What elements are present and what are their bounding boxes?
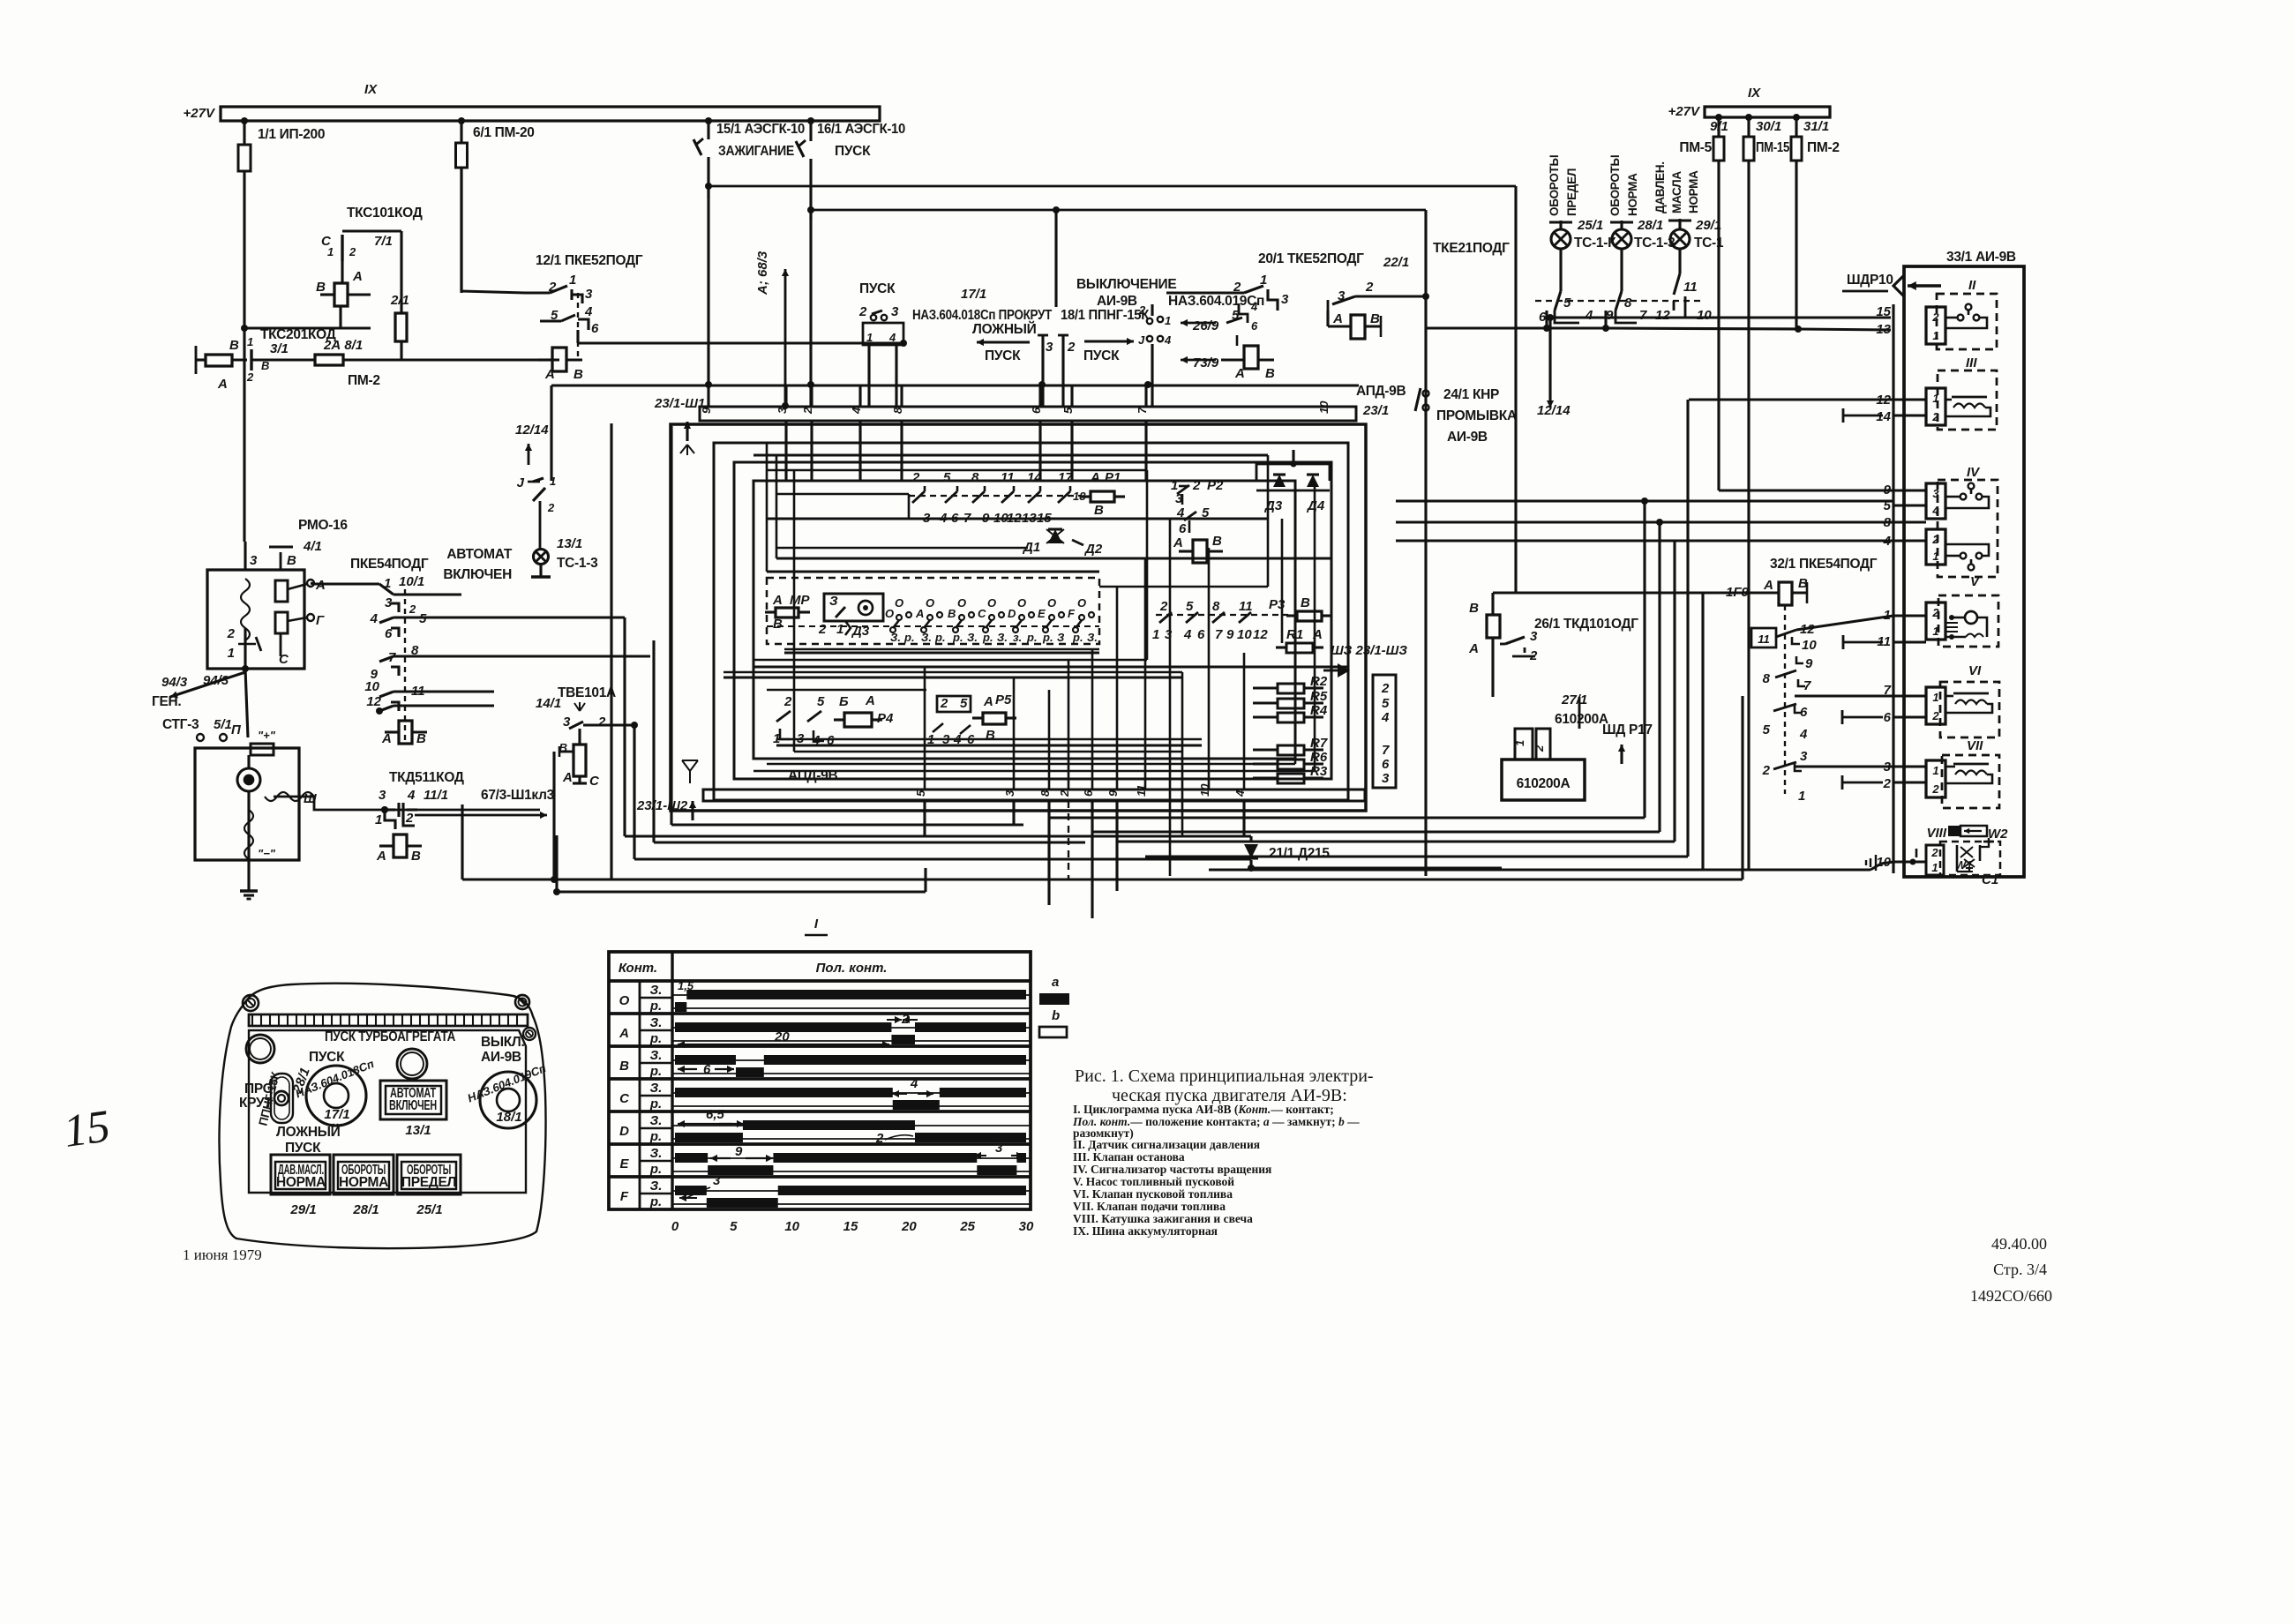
svg-text:R4: R4 [1310, 703, 1328, 718]
svg-text:IX: IX [364, 82, 378, 97]
svg-text:10: 10 [1237, 627, 1252, 642]
svg-text:2: 2 [409, 602, 416, 616]
svg-text:R7: R7 [1310, 736, 1328, 751]
svg-text:С: С [978, 607, 986, 620]
svg-text:А: А [983, 694, 993, 709]
svg-text:А: А [865, 693, 875, 708]
svg-text:R5: R5 [1310, 689, 1328, 704]
wire right verticals to connector [2187, 891, 2189, 938]
svg-text:р.: р. [649, 1031, 662, 1046]
svg-text:27/1: 27/1 [1561, 692, 1587, 707]
svg-text:F: F [1068, 607, 1076, 620]
svg-text:з.: з. [1013, 631, 1022, 644]
svg-text:4/1: 4/1 [303, 539, 322, 554]
svg-text:А: А [562, 770, 573, 785]
cyclogram table frame [609, 952, 1031, 1209]
wire pins 5 8 4 long [1396, 499, 1893, 502]
wire bundle vertical right mid [1718, 490, 1720, 491]
svg-text:Р3: Р3 [1269, 597, 1286, 612]
svg-text:R1: R1 [1286, 627, 1303, 642]
svg-text:23/1: 23/1 [1362, 403, 1389, 418]
svg-text:7: 7 [1215, 627, 1223, 642]
svg-text:АИ-9В: АИ-9В [1447, 430, 1488, 445]
svg-text:Г: Г [316, 613, 325, 628]
svg-text:Конт.: Конт. [618, 961, 657, 976]
svg-text:5: 5 [817, 694, 825, 709]
svg-text:23/1-Ш1: 23/1-Ш1 [654, 396, 705, 411]
svg-text:18: 18 [1073, 490, 1086, 503]
wire diode Д215 horizontal [1251, 866, 1502, 869]
svg-text:11: 11 [1683, 280, 1698, 295]
svg-text:НОРМА: НОРМА [339, 1175, 388, 1190]
svg-text:З.: З. [921, 631, 932, 644]
switch 15/1 АЭСГК-10 ЗАЖИГАНИЕ [707, 121, 709, 139]
svg-text:R3: R3 [1310, 764, 1328, 779]
svg-text:С1: С1 [1982, 872, 1998, 887]
wire y389 to button [578, 341, 903, 344]
svg-text:+27V: +27V [184, 106, 216, 121]
svg-text:C: C [619, 1091, 630, 1106]
svg-text:10: 10 [364, 679, 379, 694]
coil ПКЕ54 А-В [399, 721, 412, 744]
svg-text:2: 2 [1931, 606, 1939, 619]
svg-text:ПУСК: ПУСК [1083, 348, 1120, 363]
svg-text:26/9: 26/9 [1192, 318, 1219, 333]
svg-text:VII. Клапан подачи топлива: VII. Клапан подачи топлива [1073, 1200, 1226, 1213]
svg-text:2: 2 [1931, 410, 1939, 423]
svg-text:5: 5 [943, 470, 951, 485]
wire row y408 [251, 358, 315, 361]
svg-text:6: 6 [1884, 710, 1892, 725]
fuse 6/1 ПМ-20 [460, 121, 462, 143]
svg-text:2: 2 [1533, 745, 1546, 752]
svg-text:А: А [1312, 627, 1323, 642]
wire ПКЕ54(32/1) col drops [1803, 662, 1893, 664]
svg-text:ПМ-15: ПМ-15 [1756, 140, 1790, 155]
svg-text:О: О [926, 596, 934, 610]
svg-text:23/1-Ш2: 23/1-Ш2 [636, 798, 688, 813]
svg-text:2: 2 [1365, 280, 1374, 295]
inner box 3 [734, 462, 1331, 779]
svg-text:2: 2 [1931, 533, 1939, 546]
wire x1692 vertical 26/1 [1493, 696, 1579, 698]
svg-text:8: 8 [1212, 599, 1220, 614]
svg-text:А: А [1234, 366, 1245, 381]
svg-text:Р1: Р1 [1105, 470, 1121, 485]
svg-text:R2: R2 [1310, 674, 1328, 689]
svg-text:73/9: 73/9 [1193, 355, 1219, 370]
svg-text:А: А [217, 377, 228, 392]
svg-text:В: В [1469, 601, 1479, 616]
svg-text:4: 4 [1381, 710, 1390, 725]
svg-text:Д3: Д3 [1263, 498, 1283, 513]
cyclogram bars row B [675, 1055, 736, 1065]
svg-text:31/1: 31/1 [1803, 119, 1829, 134]
svg-text:7: 7 [1639, 308, 1647, 323]
svg-text:+27V: +27V [1668, 104, 1701, 119]
cyclogram bars row C [675, 1088, 893, 1097]
svg-text:З.: З. [650, 1146, 663, 1161]
fuse 31/1 ПМ-2 [1795, 117, 1797, 137]
svg-text:П: П [231, 722, 242, 737]
svg-text:2: 2 [1931, 782, 1939, 796]
wire ПМ-2 to pin13 [1795, 326, 1802, 333]
ground at pin 10 [1881, 862, 1893, 864]
lamp 28/1 ТС-1-3 [1620, 221, 1623, 228]
panel screw top-right [515, 995, 529, 1009]
svg-text:1: 1 [1932, 625, 1938, 638]
svg-text:ОБОРОТЫ: ОБОРОТЫ [1608, 155, 1622, 216]
wire node y372 left [244, 326, 371, 329]
svg-text:V. Насос топливный пусковой: V. Насос топливный пусковой [1073, 1175, 1234, 1188]
inner box 4 [753, 481, 1295, 759]
svg-text:1: 1 [1932, 329, 1938, 342]
svg-text:1: 1 [1932, 691, 1938, 704]
svg-text:6: 6 [591, 321, 599, 336]
svg-text:ПУСК: ПУСК [985, 348, 1021, 363]
svg-text:2: 2 [547, 501, 555, 514]
coil ТКД511 А-В [394, 834, 407, 857]
svg-text:АИ-9В: АИ-9В [481, 1050, 521, 1065]
svg-text:2: 2 [1931, 709, 1939, 722]
svg-text:СТГ-3: СТГ-3 [162, 717, 199, 732]
svg-text:З.: З. [650, 983, 663, 998]
svg-text:О: О [987, 596, 996, 610]
diode bridge Д3 Д4 [1256, 464, 1330, 481]
svg-text:О: О [957, 596, 966, 610]
svg-text:2: 2 [911, 470, 920, 485]
svg-text:2: 2 [1067, 340, 1076, 355]
svg-text:20/1 ТКЕ52ПОДГ: 20/1 ТКЕ52ПОДГ [1258, 251, 1364, 266]
svg-text:6: 6 [385, 626, 393, 641]
connector strip 23/1-Ш1 top [700, 407, 1356, 421]
svg-text:26/1 ТКД101ОДГ: 26/1 ТКД101ОДГ [1534, 617, 1638, 632]
contact column 32/1 [1784, 605, 1786, 794]
svg-text:В: В [1265, 366, 1275, 381]
panel indicator ОБОРОТЫ НОРМА [334, 1155, 394, 1194]
svg-text:АИ-9В: АИ-9В [1097, 294, 1137, 309]
svg-text:I. Циклограмма пуска АИ-: I. Циклограмма пуска АИ-8В (Конт.— конта… [1073, 1103, 1334, 1116]
svg-text:F: F [620, 1189, 629, 1204]
svg-text:З.: З. [650, 1048, 663, 1063]
svg-text:ВЫКЛ.: ВЫКЛ. [481, 1035, 525, 1050]
svg-text:0: 0 [671, 1219, 679, 1234]
svg-text:10: 10 [1317, 400, 1331, 414]
svg-text:2: 2 [1058, 790, 1071, 797]
connector strip 23/1-Ш2 bottom [703, 790, 1365, 801]
pin stem column [1892, 304, 1894, 873]
svg-text:10: 10 [784, 1219, 799, 1234]
svg-text:А: А [544, 367, 555, 382]
svg-text:3: 3 [585, 287, 593, 302]
svg-text:8: 8 [1763, 671, 1771, 686]
svg-text:III. Клапан останова: III. Клапан останова [1073, 1150, 1185, 1164]
svg-text:5: 5 [914, 790, 927, 797]
cyclogram bars row D [675, 1133, 743, 1142]
svg-text:А: А [1332, 311, 1343, 326]
svg-text:4: 4 [370, 611, 379, 626]
svg-text:12: 12 [1655, 308, 1670, 323]
svg-text:18/1 ППНГ-15К: 18/1 ППНГ-15К [1061, 308, 1150, 323]
svg-text:12/14: 12/14 [515, 423, 549, 438]
svg-text:VII: VII [1967, 738, 1983, 753]
panel lamp middle [397, 1049, 427, 1079]
svg-text:З.: З. [967, 631, 978, 644]
wires ПКЕ54 row stubs [394, 593, 461, 595]
svg-text:В: В [411, 849, 421, 864]
svg-text:А: А [772, 593, 783, 608]
svg-text:32/1 ПКЕ54ПОДГ: 32/1 ПКЕ54ПОДГ [1770, 557, 1878, 572]
svg-text:IX: IX [1748, 86, 1761, 101]
svg-text:J: J [1138, 333, 1145, 347]
svg-text:З.: З. [650, 1113, 663, 1128]
svg-text:В: В [986, 728, 995, 743]
wires 32/1 to pins [1796, 616, 1893, 630]
svg-text:ТКЕ21ПОДГ: ТКЕ21ПОДГ [1433, 241, 1510, 256]
cyclogram bars row A [675, 1022, 891, 1032]
svg-text:В: В [229, 338, 239, 353]
svg-text:3: 3 [713, 1173, 721, 1188]
svg-text:АВТОМАТ: АВТОМАТ [446, 547, 512, 562]
svg-text:6: 6 [1251, 319, 1258, 333]
svg-text:А: А [1173, 535, 1183, 550]
svg-text:ПУСК: ПУСК [835, 144, 871, 159]
wire ВЫКЛЮЧЕНИЕ drop x1197 [1054, 210, 1057, 307]
svg-text:12/14: 12/14 [1537, 403, 1571, 418]
panel lamp left [246, 1035, 274, 1063]
program mechanism dashed box [767, 578, 1099, 644]
svg-text:ПУСК: ПУСК [285, 1141, 321, 1156]
svg-text:3/1: 3/1 [270, 341, 289, 356]
svg-text:1: 1 [1798, 789, 1805, 804]
svg-text:9: 9 [1805, 656, 1813, 671]
svg-text:25/1: 25/1 [1577, 218, 1603, 233]
svg-text:р.: р. [934, 631, 946, 644]
svg-text:11: 11 [1758, 632, 1770, 646]
svg-text:В: В [316, 280, 326, 295]
svg-text:НОРМА: НОРМА [1626, 173, 1639, 216]
svg-text:5: 5 [1763, 722, 1771, 737]
svg-text:2: 2 [1931, 311, 1939, 324]
svg-text:НОРМА: НОРМА [1687, 170, 1700, 213]
control panel ПУСК ТУРБОАГРЕГАТА outline [220, 984, 546, 1248]
wire mesh inside block verticals [766, 443, 768, 572]
svg-text:ПМ-2: ПМ-2 [1807, 140, 1840, 155]
wire mesh inside block horizontals [753, 454, 1248, 457]
svg-text:VIII. Катушка зажигания и свеч: VIII. Катушка зажигания и свеча [1073, 1212, 1253, 1225]
svg-text:2А 8/1: 2А 8/1 [323, 338, 363, 353]
svg-text:16/1 АЭСГК-10: 16/1 АЭСГК-10 [817, 122, 905, 137]
svg-text:E: E [619, 1156, 629, 1171]
svg-text:ТКД511КОД: ТКД511КОД [389, 770, 464, 785]
svg-text:4: 4 [1250, 300, 1258, 313]
svg-text:2: 2 [1159, 599, 1168, 614]
svg-text:1: 1 [247, 335, 253, 348]
svg-text:З.: З. [890, 631, 901, 644]
svg-text:ПУСК ТУРБОАГРЕГАТА: ПУСК ТУРБОАГРЕГАТА [325, 1029, 455, 1044]
svg-text:ВКЛЮЧЕН: ВКЛЮЧЕН [443, 567, 512, 582]
wire mesh horizontal inner block [753, 453, 1268, 456]
panel screw top-left [243, 995, 259, 1011]
svg-text:3: 3 [1932, 487, 1939, 500]
button 24/1 КНР ПРОМЫВКА АИ-9В [1423, 391, 1429, 397]
svg-text:b: b [1052, 1008, 1060, 1023]
svg-text:МР: МР [790, 593, 810, 608]
svg-text:Д2: Д2 [1083, 542, 1103, 557]
svg-text:49.40.00: 49.40.00 [1991, 1235, 2047, 1253]
svg-text:Д4: Д4 [1306, 498, 1325, 513]
svg-text:15/1 АЭСГК-10: 15/1 АЭСГК-10 [716, 122, 805, 137]
svg-text:22/1: 22/1 [1383, 255, 1409, 270]
svg-text:21/1 Д215: 21/1 Д215 [1269, 846, 1330, 861]
wire trunk y436 [551, 384, 1359, 386]
svg-text:РМО-16: РМО-16 [298, 518, 348, 533]
svg-text:З.: З. [1087, 631, 1098, 644]
svg-text:р.: р. [903, 631, 915, 644]
wire verticals right of block [1424, 388, 1427, 876]
svg-text:2: 2 [875, 1131, 884, 1146]
svg-text:ВКЛЮЧЕН: ВКЛЮЧЕН [389, 1098, 437, 1113]
svg-text:З.: З. [650, 1015, 663, 1030]
svg-text:2: 2 [1930, 846, 1938, 859]
svg-text:3: 3 [1003, 790, 1016, 797]
lamp 25/1 ТС-1-К [1559, 221, 1562, 228]
svg-text:9: 9 [1106, 790, 1120, 797]
svg-text:O: O [619, 993, 630, 1008]
svg-text:14: 14 [1876, 409, 1891, 424]
panel inner plate [249, 1030, 526, 1193]
svg-text:В: В [948, 607, 956, 620]
svg-text:6: 6 [1382, 757, 1390, 772]
svg-text:2: 2 [1762, 763, 1771, 778]
svg-text:4: 4 [1183, 627, 1192, 642]
svg-text:С: С [589, 774, 600, 789]
svg-text:О: О [1077, 596, 1086, 610]
svg-text:15: 15 [61, 1101, 113, 1157]
svg-text:7: 7 [1136, 407, 1149, 414]
svg-text:13/1: 13/1 [405, 1123, 431, 1138]
svg-text:В: В [1212, 534, 1222, 549]
svg-text:р.: р. [952, 631, 963, 644]
svg-text:R6: R6 [1310, 750, 1328, 765]
svg-text:7: 7 [1382, 743, 1390, 758]
svg-text:А: А [1090, 470, 1100, 485]
svg-text:р.: р. [1042, 631, 1053, 644]
svg-text:4: 4 [407, 788, 416, 803]
svg-text:1: 1 [569, 273, 576, 288]
svg-text:6: 6 [1179, 521, 1187, 536]
antenna symbol left bottom [682, 760, 698, 783]
svg-text:30: 30 [1019, 1219, 1034, 1234]
svg-text:2: 2 [1381, 681, 1390, 696]
wire mesh horizontals below block [671, 823, 1023, 826]
svg-text:5: 5 [1061, 407, 1075, 414]
svg-text:3: 3 [1382, 771, 1390, 786]
svg-text:З.: З. [650, 1179, 663, 1194]
svg-text:О: О [1017, 596, 1026, 610]
lamp 29/1 ТС-1 [1678, 219, 1681, 228]
svg-text:В: В [1370, 311, 1380, 326]
svg-text:3: 3 [250, 553, 258, 568]
svg-text:17/1: 17/1 [961, 287, 986, 302]
svg-text:ОБОРОТЫ: ОБОРОТЫ [1548, 155, 1561, 216]
svg-text:1: 1 [228, 646, 235, 661]
svg-text:ПКЕ54ПОДГ: ПКЕ54ПОДГ [350, 557, 429, 572]
diode 21/1 Д215 [1244, 844, 1258, 858]
wire verticals inside block top [784, 421, 787, 481]
pressure contact group dashed [1535, 300, 1703, 302]
wire column x1466 into bridge [1293, 421, 1294, 450]
coil ТКЕ52 А-В 20/1 [1351, 315, 1365, 339]
svg-text:В: В [287, 553, 296, 568]
svg-text:4: 4 [1931, 504, 1939, 517]
wire trunk y436 extra [674, 385, 676, 407]
svg-text:4: 4 [910, 1076, 918, 1091]
motor Д3 program [824, 594, 883, 621]
svg-text:17/1: 17/1 [324, 1107, 349, 1122]
svg-text:12: 12 [366, 694, 381, 709]
svg-text:Р2: Р2 [1207, 478, 1224, 493]
panel indicator ДАВ МАСЛ НОРМА [271, 1155, 330, 1194]
svg-text:ТС-1-К: ТС-1-К [1574, 236, 1616, 251]
svg-text:"−": "−" [258, 847, 276, 860]
svg-text:2: 2 [405, 811, 414, 826]
svg-text:р.: р. [649, 1194, 662, 1209]
svg-text:1: 1 [1932, 550, 1938, 563]
svg-text:НАЗ.604.019Сп: НАЗ.604.019Сп [1168, 294, 1264, 309]
wire from switch 16/1 down [707, 198, 709, 407]
svg-text:5: 5 [1382, 696, 1390, 711]
svg-text:В: В [1094, 503, 1104, 518]
svg-text:3: 3 [891, 304, 899, 319]
svg-text:28/1: 28/1 [1637, 218, 1663, 233]
svg-text:a: a [1052, 975, 1059, 990]
svg-text:18/1: 18/1 [496, 1110, 521, 1125]
svg-text:15: 15 [1876, 304, 1891, 319]
svg-text:2: 2 [940, 696, 948, 711]
svg-text:VI: VI [1968, 663, 1982, 678]
svg-text:ПРЕДЕЛ: ПРЕДЕЛ [1565, 168, 1578, 216]
svg-text:10/1: 10/1 [399, 574, 424, 589]
svg-text:2: 2 [858, 304, 867, 319]
svg-text:10: 10 [1802, 638, 1817, 653]
svg-text:2: 2 [801, 407, 814, 415]
svg-text:ВЫКЛЮЧЕНИЕ: ВЫКЛЮЧЕНИЕ [1076, 277, 1176, 292]
svg-text:6: 6 [1197, 627, 1205, 642]
panel comb strip [249, 1014, 528, 1026]
svg-text:VIII: VIII [1926, 826, 1946, 841]
svg-text:33/1 АИ-9В: 33/1 АИ-9В [1946, 250, 2016, 265]
svg-text:2: 2 [1138, 303, 1146, 317]
svg-text:610200А: 610200А [1517, 776, 1571, 791]
svg-text:8: 8 [1038, 790, 1052, 797]
switch 16/1 АЭСГК-10 ПУСК [809, 121, 812, 141]
svg-text:9: 9 [1884, 483, 1892, 498]
svg-text:A: A [618, 1026, 629, 1041]
svg-text:8: 8 [1624, 296, 1632, 311]
svg-text:О: О [895, 596, 903, 610]
svg-text:3: 3 [995, 1141, 1003, 1156]
svg-text:7/1: 7/1 [374, 234, 393, 249]
svg-text:"+": "+" [258, 729, 276, 742]
panel knob 18/1 ВЫКЛ [480, 1072, 536, 1128]
wire right wrap risers [1643, 501, 1646, 818]
svg-text:1: 1 [1165, 314, 1171, 327]
svg-text:р.: р. [1026, 631, 1038, 644]
wire start line y238 [811, 209, 1426, 212]
svg-text:20: 20 [774, 1029, 790, 1044]
svg-text:29/1: 29/1 [289, 1202, 316, 1217]
